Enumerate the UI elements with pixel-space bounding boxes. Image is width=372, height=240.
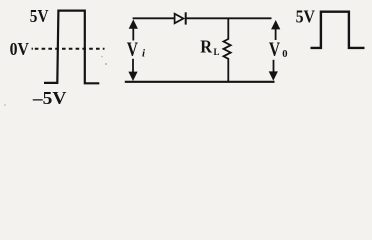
svg-text:0: 0 [282, 48, 287, 60]
Vi arrow up [129, 19, 138, 40]
svg-text:5V: 5V [296, 7, 315, 27]
svg-text:–5V: –5V [32, 88, 67, 108]
input square wave [44, 11, 99, 84]
label Vi [127, 38, 146, 60]
wire: top rail input side to diode anode [133, 17, 175, 19]
svg-text:0V: 0V [10, 39, 29, 59]
svg-text:V: V [127, 38, 139, 60]
resistor RL (vertical with zigzag) [224, 19, 231, 81]
wire: diode cathode to output top rail [186, 17, 272, 19]
svg-text:V: V [269, 39, 281, 61]
svg-text:5V: 5V [30, 6, 49, 26]
svg-text:L: L [214, 47, 220, 57]
0V reference dashed line [32, 48, 105, 50]
label Vo [269, 39, 288, 61]
bottom rail wire [125, 81, 275, 83]
diode D (triangle + cathode bar) [175, 12, 186, 24]
svg-text:R: R [200, 37, 212, 57]
Vi arrow down [128, 59, 137, 81]
Vo arrow up [271, 20, 280, 40]
label RL [200, 37, 219, 58]
output square wave [311, 12, 365, 48]
Vo arrow down [269, 60, 278, 81]
